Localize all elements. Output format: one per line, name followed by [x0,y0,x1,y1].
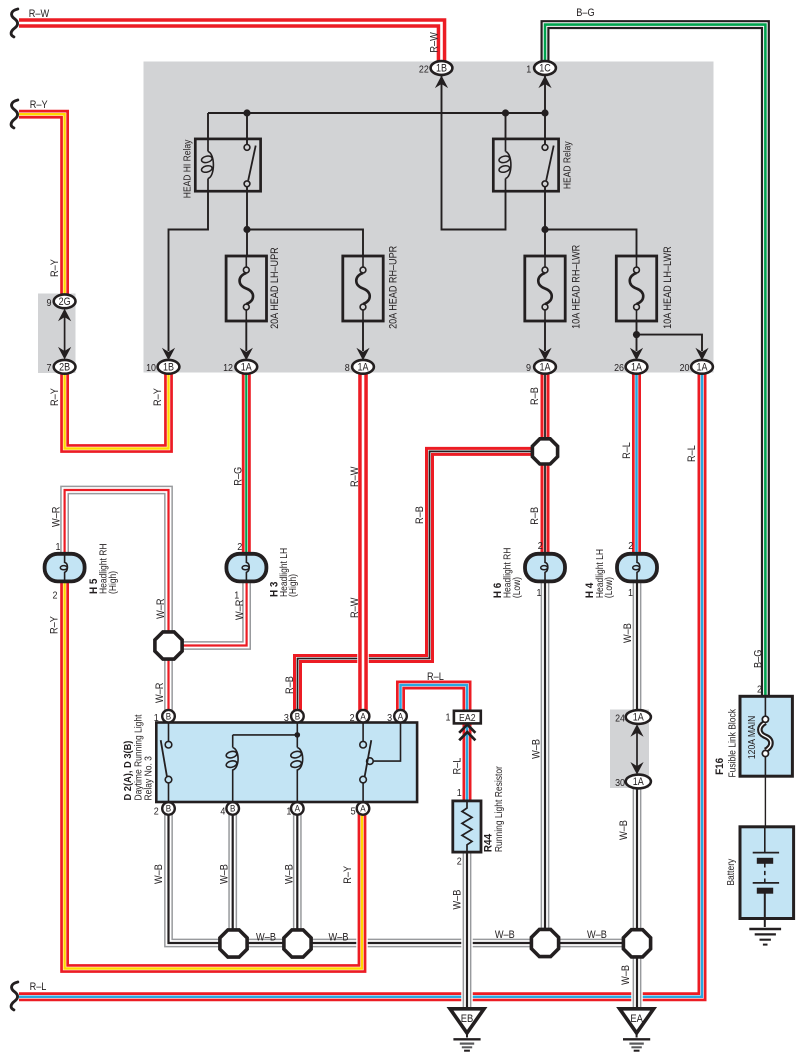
relay pin 1B [162,710,175,723]
svg-text:26: 26 [614,362,624,374]
svg-text:B: B [295,711,300,722]
connector 26(1A) [626,360,648,374]
junction junction W-B 2 [284,930,311,957]
svg-text:9: 9 [47,297,52,309]
svg-text:W–B: W–B [153,864,165,884]
wire R-L relay pin 3A to EA2 [401,685,468,716]
svg-text:B: B [166,804,171,815]
svg-text:A: A [360,804,366,815]
wire branch to connector 20 [637,335,703,351]
arrow into 20(1A) [695,348,708,361]
svg-text:2B: 2B [59,362,70,374]
arrow into 2G [58,309,71,322]
svg-text:12: 12 [223,362,233,374]
connector 9(2G) [54,294,76,308]
svg-text:B: B [230,804,235,815]
svg-text:120A MAIN: 120A MAIN [747,716,758,760]
svg-text:R–Y: R–Y [49,616,61,634]
wire R-W feed to 22(1B) [19,23,442,68]
ground EA [620,1009,654,1051]
wire-break R-W [11,9,18,37]
svg-text:W–B: W–B [329,932,349,944]
svg-text:2: 2 [538,540,543,552]
arrow into 10(1B) [162,348,175,361]
connector 9(1A) [534,360,556,374]
svg-text:Battery: Battery [726,859,737,886]
connector EA2 [454,711,481,724]
svg-text:24: 24 [615,713,625,725]
svg-text:(High): (High) [108,571,119,594]
connector 12(1A) [235,360,257,374]
svg-text:3: 3 [387,712,392,724]
svg-text:1A: 1A [358,362,370,374]
svg-text:R–Y: R–Y [49,259,61,277]
svg-text:2: 2 [457,855,462,867]
svg-text:1: 1 [526,64,531,76]
svg-text:1B: 1B [163,362,174,374]
svg-text:30: 30 [615,777,625,789]
wire link 2G to 2B [64,315,66,352]
connector 8(1A) [352,360,374,374]
svg-text:EA: EA [630,1013,643,1025]
bulb H6 Headlight RH (Low) [525,554,565,582]
svg-text:7: 7 [47,362,52,374]
wire R-L 26(1A) to H4 pin2 [631,367,643,560]
svg-text:1: 1 [286,806,291,818]
svg-text:1A: 1A [697,362,709,374]
svg-text:R–Y: R–Y [342,866,354,884]
svg-text:2: 2 [237,541,242,553]
connector 24/30 background panel [610,710,649,789]
svg-text:R44: R44 [482,834,494,852]
svg-text:R–Y: R–Y [49,388,61,406]
wire branch to fuse HEAD LH-LWR [545,230,637,257]
svg-text:22: 22 [419,64,429,76]
fuse 20A HEAD RH-UPR [343,256,383,321]
relay pin 5A [357,802,370,815]
arrow into 26(1A) [630,348,643,361]
svg-text:A: A [360,711,366,722]
svg-text:1B: 1B [436,63,447,75]
svg-text:10A HEAD RH–LWR: 10A HEAD RH–LWR [571,244,583,328]
svg-text:8: 8 [345,362,350,374]
svg-text:W–B: W–B [256,932,276,944]
wire connector 1(1C) to HEAD relay switch [544,76,546,145]
svg-text:Running Light Resistor: Running Light Resistor [494,766,505,853]
wire R-G 12(1A) to H3 pin2 [241,367,253,560]
svg-text:(Low): (Low) [604,577,615,598]
connector 7(2B) [54,360,76,374]
junction junction R-B [532,439,557,464]
svg-text:R–W: R–W [349,466,361,487]
svg-text:B: B [166,711,171,722]
svg-text:1C: 1C [539,63,551,75]
bulb H4 Headlight LH (Low) [617,554,657,582]
wire W-B R44 pin2 to ground EB [461,853,473,1009]
wire branch to fuse HEAD LH-UPR [246,230,248,257]
junction junction W-B 4 [623,930,650,957]
connector 30(1A) [626,775,651,789]
svg-text:W–B: W–B [618,820,630,840]
svg-text:2G: 2G [59,296,71,308]
wire W-B relay pin 1A down [292,809,304,944]
svg-text:HEAD HI Relay: HEAD HI Relay [183,140,194,199]
relay pin 3A [394,710,407,723]
wire W-B 30(1A) to junction [631,782,643,944]
svg-text:EB: EB [461,1013,474,1025]
svg-text:(Low): (Low) [512,577,523,598]
wire W-B junction to ground EA [631,943,643,1009]
arrow into 24 [630,724,643,737]
svg-text:1A: 1A [540,362,552,374]
svg-text:2: 2 [757,684,762,696]
arrow into 22(1B) [435,76,448,89]
svg-text:Relay No. 3: Relay No. 3 [144,756,155,801]
svg-text:W–B: W–B [620,965,632,985]
svg-text:EA2: EA2 [459,713,476,724]
svg-text:R–G: R–G [233,467,245,486]
wire R-L 20(1A) to body harness [19,367,702,997]
wire bus node B+ horizontal [208,112,545,114]
svg-text:1A: 1A [633,712,645,724]
connector 20(1A) [691,360,713,374]
svg-text:Fusible Link Block: Fusible Link Block [727,708,738,777]
wire wire F16 to battery [764,776,766,827]
svg-text:W–R: W–R [234,599,246,620]
relay/fuse block background panel [144,62,714,373]
wire link 24 to 30 [636,730,638,768]
svg-text:R–L: R–L [686,445,698,462]
wire W-B relay pin 4B down [227,809,239,944]
wire branch to fuse HEAD RH-UPR [247,230,363,257]
wire fuse LH-LWR out junction [636,321,638,351]
wire fuse LH-UPR out to connector 12 [245,321,247,351]
wire-break R-Y [11,100,18,128]
relay pin 3B [291,710,304,723]
wire R-Y H5 pin2 to relay pin 5A [65,575,362,969]
svg-text:1: 1 [457,787,462,799]
wire branch to fuse HEAD RH-LWR [544,230,546,257]
svg-text:4: 4 [220,806,225,818]
svg-text:1A: 1A [241,362,253,374]
arrow into 2B [58,347,71,360]
EA2 double chevron [459,725,475,741]
wire HEAD HI relay switch bottom pin [246,187,248,230]
junction junction W-B 3 [531,929,558,956]
svg-text:R–L: R–L [30,981,47,993]
connector 24(1A) [626,710,651,724]
wire R-B 9(1A) to junction [539,367,551,451]
svg-text:2: 2 [53,590,58,602]
wire HEAD HI relay switch top pin [246,113,248,145]
svg-text:R–L: R–L [452,758,464,775]
ground EB [450,1009,484,1051]
svg-text:1: 1 [537,587,542,599]
wire R-B junction to relay pin 3B [298,451,546,716]
svg-text:R–B: R–B [529,387,541,405]
relay D2(A) D3(B) Daytime Running Light Relay No.3 [156,723,417,803]
svg-text:F16: F16 [714,758,726,775]
bulb H5 Headlight RH (High) [45,554,85,582]
svg-text:R–W: R–W [29,8,50,20]
svg-text:A: A [295,804,301,815]
svg-text:10: 10 [146,362,156,374]
wire W-B ground bus [234,937,638,949]
svg-text:W–R: W–R [154,682,166,703]
svg-text:B–G: B–G [753,650,765,668]
svg-text:1A: 1A [631,362,643,374]
svg-text:D 2(A), D 3(B): D 2(A), D 3(B) [123,741,134,801]
svg-text:1: 1 [446,712,451,724]
svg-text:B–G: B–G [576,7,594,19]
arrow into 9(1A) [538,348,551,361]
fusible link F16 120A MAIN [740,696,792,776]
junction node bus-relay1 switch [243,109,250,116]
wire fuse RH-UPR out to connector 8 [362,321,364,351]
svg-text:20A HEAD RH–UPR: 20A HEAD RH–UPR [388,246,400,329]
svg-text:R–B: R–B [529,507,541,525]
arrow into 12(1A) [240,348,253,361]
svg-text:2: 2 [350,712,355,724]
resistor R44 Running Light Resistor [453,801,481,852]
svg-text:W–B: W–B [622,623,634,643]
svg-text:W–R: W–R [51,506,63,527]
arrow into 1(1C) [538,76,551,89]
wire HEAD HI relay coil top pin [207,113,209,139]
wire W-R junction to H3 pin1 [169,575,247,646]
connector 2G/2B background panel [38,294,76,374]
svg-text:A: A [398,711,404,722]
fuse 10A HEAD RH-LWR [525,256,565,321]
relay HEAD Relay [493,139,558,191]
svg-text:W–R: W–R [155,598,167,619]
junction node relay2 switch out [541,226,548,233]
junction node bus-1C [541,109,548,116]
fuse 10A HEAD LH-LWR [616,256,656,321]
svg-text:R–W: R–W [429,32,441,53]
wire R-L EA2 to R44 [461,724,473,803]
wire B-G battery feed to 1(1C) [545,25,765,697]
svg-text:1A: 1A [633,776,645,788]
wire W-R junction to relay pin 1B [163,646,175,717]
relay HEAD HI Relay [195,139,260,191]
svg-text:1: 1 [628,587,633,599]
svg-text:R–L: R–L [621,442,633,459]
svg-text:R–L: R–L [427,671,444,683]
arrow into 8(1A) [356,348,369,361]
svg-text:R–Y: R–Y [152,388,164,406]
relay pin 1A [291,802,304,815]
junction junction W-R [155,632,182,659]
wire fuse RH-LWR out to connector 9 [544,321,546,351]
fuse 20A HEAD LH-UPR [226,256,266,321]
svg-text:R–W: R–W [349,597,361,618]
svg-text:2: 2 [628,540,633,552]
svg-text:5: 5 [351,806,356,818]
wire R-B junction to H6 pin2 [539,451,551,560]
battery [740,827,794,927]
wire connector 22(1B) to HEAD relay coil [442,76,506,230]
svg-text:1: 1 [154,712,159,724]
svg-text:2: 2 [154,806,159,818]
svg-text:W–B: W–B [495,929,515,941]
junction node relay1 switch out [243,226,250,233]
svg-text:W–B: W–B [530,739,542,759]
junction node fuse LH-LWR out [633,331,640,338]
connector 10(1B) [158,360,180,374]
svg-text:10A HEAD LH–LWR: 10A HEAD LH–LWR [662,246,674,329]
svg-text:R–Y: R–Y [30,99,48,111]
svg-text:W–B: W–B [283,864,295,884]
junction node coil link [295,732,301,738]
svg-text:W–B: W–B [451,890,463,910]
svg-text:W–B: W–B [218,864,230,884]
svg-text:(High): (High) [288,574,299,597]
connector 1(1C) [534,61,556,75]
relay pin 2B [162,802,175,815]
svg-text:R–B: R–B [284,676,296,694]
svg-text:1: 1 [234,590,239,602]
wire W-B relay pin 2B to junction [169,809,234,944]
wire R-Y feed to 9(2G) [19,114,65,301]
wire W-R H5 pin1 to junction [65,490,169,645]
svg-text:W–B: W–B [587,929,607,941]
relay pin 2A [357,710,370,723]
wire HEAD relay coil top pin [505,113,507,139]
connector 22(1B) [431,61,453,75]
wire HEAD HI relay coil bottom to connector 10 [169,191,209,351]
svg-text:1: 1 [56,541,61,553]
svg-text:20A HEAD LH–UPR: 20A HEAD LH–UPR [269,247,281,329]
bulb H3 Headlight LH (High) [226,554,266,582]
svg-text:20: 20 [680,362,690,374]
svg-text:R–B: R–B [414,506,426,524]
wire-break R-L [11,982,18,1010]
junction junction W-B 1 [220,930,247,957]
svg-text:3: 3 [284,712,289,724]
relay pin 4B [226,802,239,815]
wire W-B H4 pin1 to 24(1A) [631,575,643,717]
wire HEAD relay switch bottom pin [544,187,546,230]
wire R-Y 7(2B) to 10(1B) [65,367,169,449]
junction node bus-relay2 coil [502,109,509,116]
wire R-W 8(1A) to relay pin 2A [357,367,369,716]
ground below battery [749,929,781,945]
svg-text:HEAD Relay: HEAD Relay [563,141,574,189]
arrow into 30 [630,762,643,775]
wire W-B H6 pin1 to junction [539,575,551,943]
svg-text:9: 9 [526,362,531,374]
